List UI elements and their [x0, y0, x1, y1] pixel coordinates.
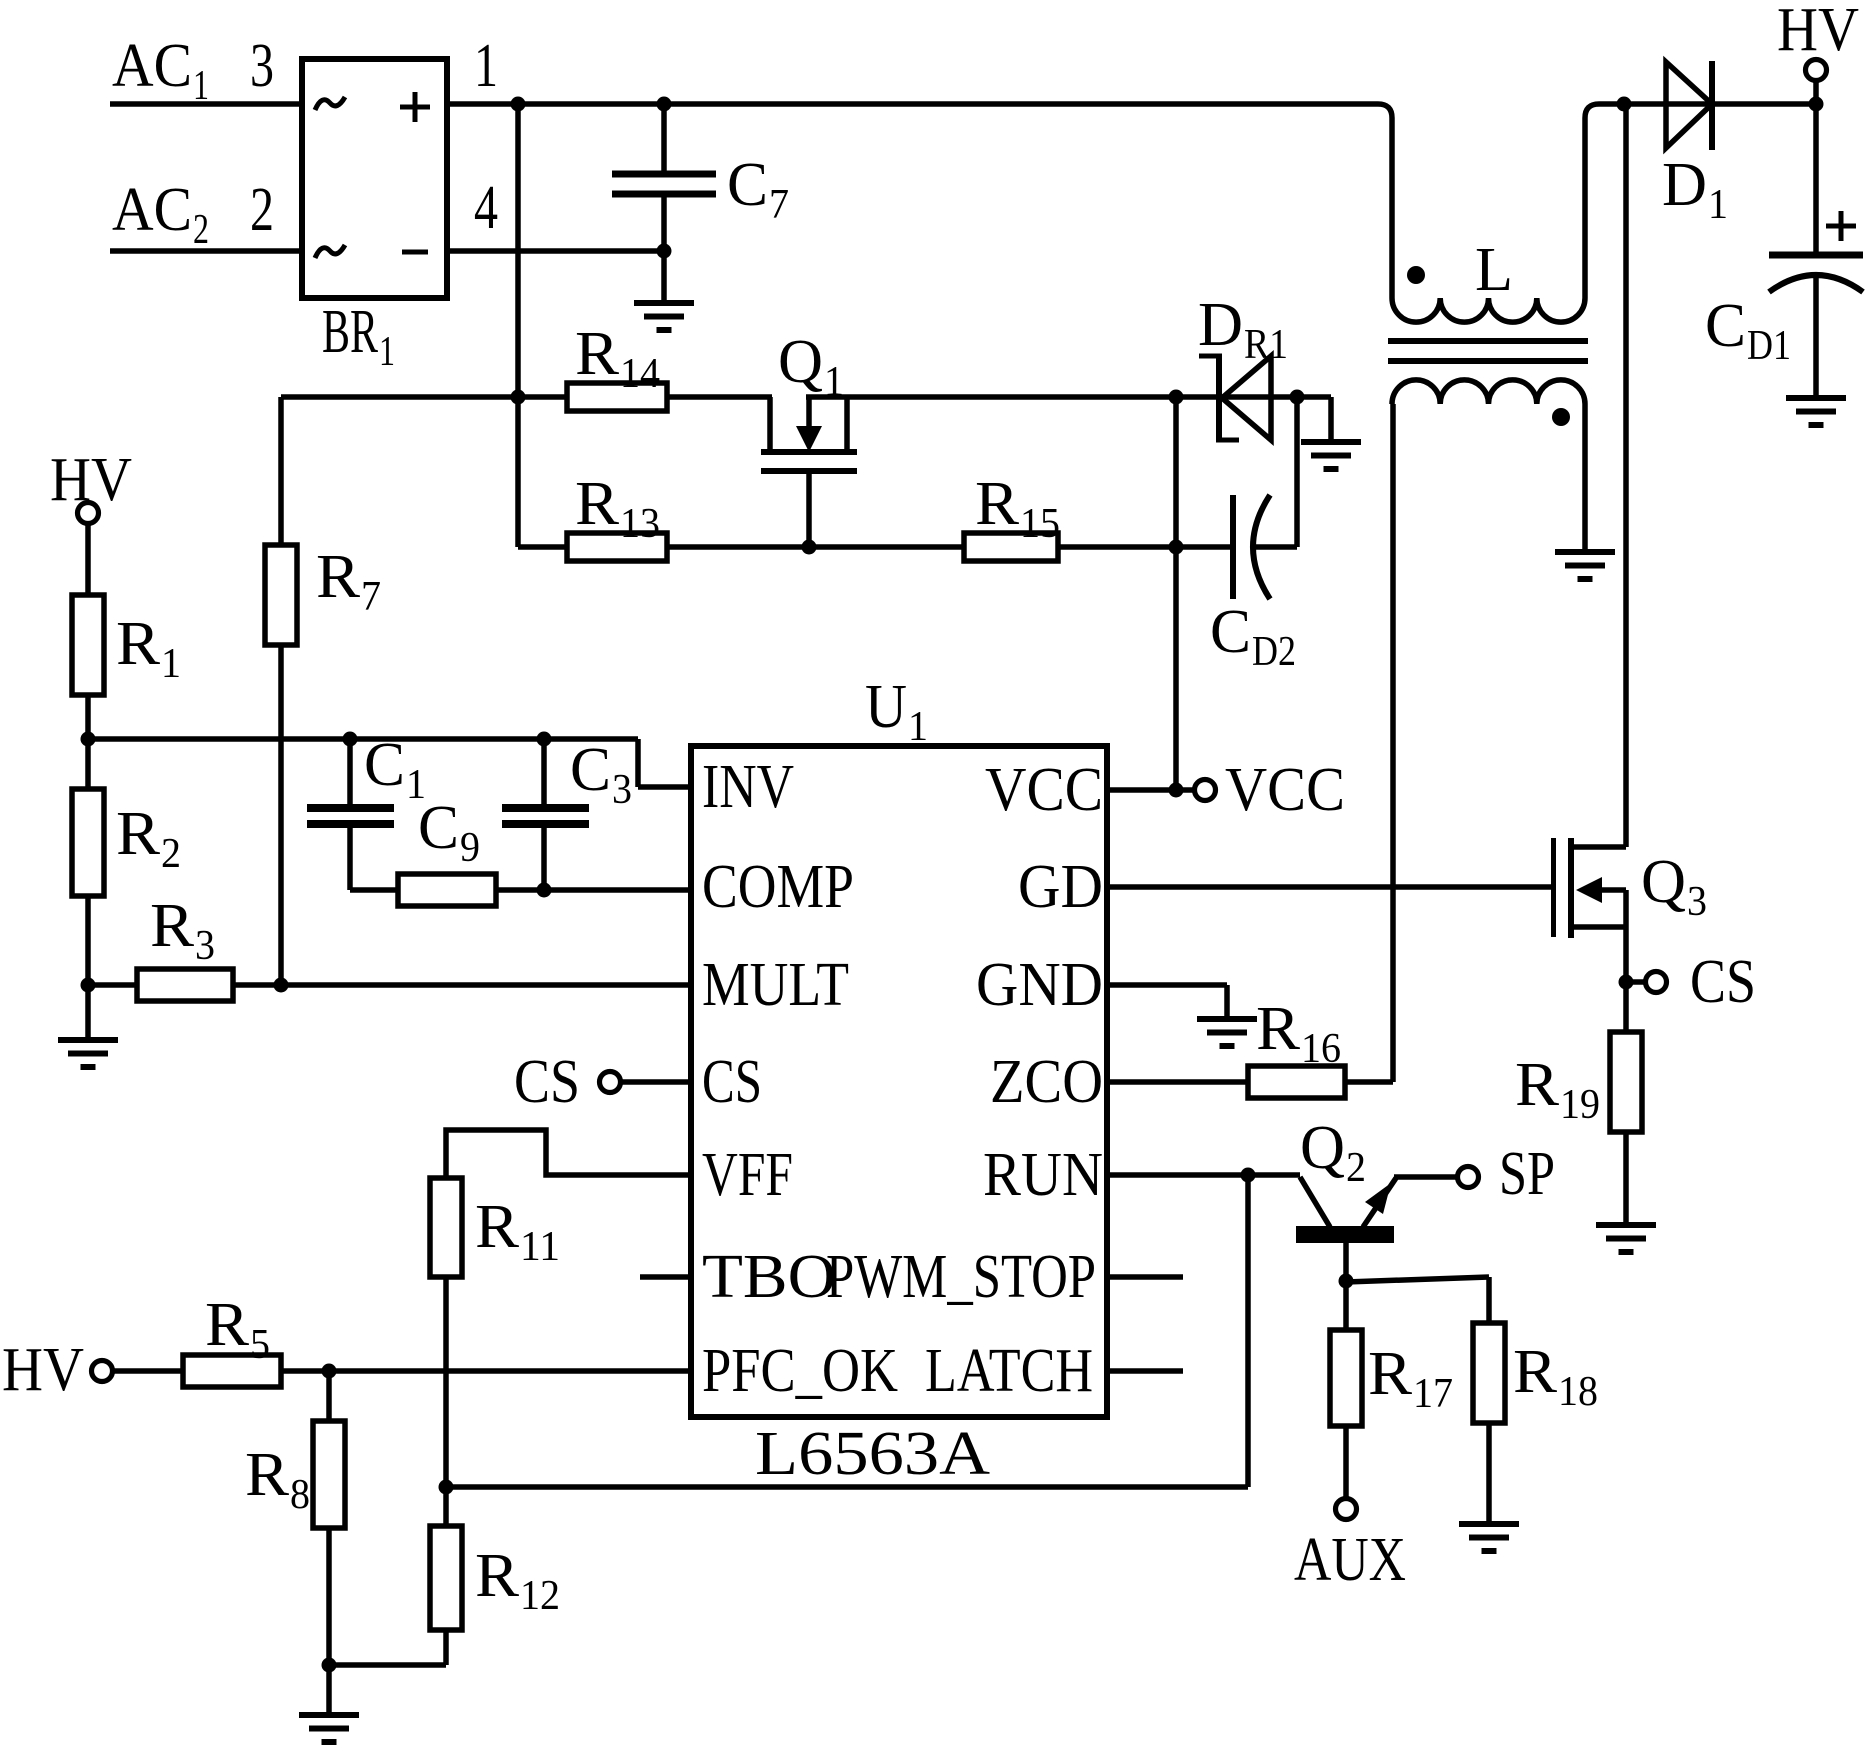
diode DR1 zener [1199, 356, 1271, 440]
svg-text:3: 3 [1687, 879, 1707, 925]
terminal CS right [1626, 972, 1667, 993]
plus sign CD1 [1826, 211, 1856, 241]
wire secondary right to ground [1582, 404, 1588, 552]
svg-text:C: C [418, 794, 459, 862]
junction INV/C3 [537, 732, 552, 747]
svg-text:R: R [1513, 1338, 1558, 1406]
resistor R3 [137, 969, 233, 1001]
net label HV left [50, 446, 132, 514]
svg-text:5: 5 [250, 1322, 270, 1368]
resistor R18 [1473, 1323, 1505, 1524]
resistor R8 [313, 1371, 345, 1715]
svg-text:C: C [570, 736, 611, 804]
svg-text:ZCO: ZCO [990, 1048, 1103, 1116]
wire Q1 to DR1 line [806, 394, 1297, 400]
wire ZCO pin [1107, 1079, 1248, 1085]
label CD1 [1705, 292, 1791, 369]
wire secondary to ZCO vertical [1390, 404, 1396, 1082]
svg-text:VCC: VCC [985, 756, 1103, 824]
pin label GD [1018, 853, 1103, 921]
svg-text:L: L [1475, 236, 1513, 304]
ground right of DR1 [1301, 442, 1361, 469]
svg-text:2: 2 [250, 176, 274, 244]
label R5 [205, 1291, 270, 1368]
capacitor C9 [398, 874, 496, 906]
svg-text:PWM_STOP: PWM_STOP [826, 1243, 1096, 1311]
wire MULT net [233, 982, 692, 988]
ground below R18 [1459, 1524, 1519, 1551]
wire AC2 input [110, 248, 301, 254]
junction L-D1-Q3drain [1617, 97, 1632, 112]
wire C7 to ground [661, 251, 667, 303]
resistor R13 [567, 533, 667, 561]
wire C1 to C9 [350, 887, 398, 893]
pin label TBO [702, 1243, 836, 1311]
pin label PWM_STOP [826, 1243, 1096, 1311]
label C1 [364, 731, 426, 808]
label R19 [1515, 1051, 1600, 1128]
junction C3/COMP [537, 883, 552, 898]
resistor R15 [964, 533, 1058, 561]
label D1 [1662, 151, 1728, 228]
svg-text:R: R [316, 543, 361, 611]
resistor R14 [567, 383, 667, 411]
svg-text:VFF: VFF [702, 1141, 793, 1209]
phase dot secondary [1552, 408, 1570, 426]
label Q2 [1300, 1114, 1366, 1191]
IC U1 L6563A box [691, 746, 1107, 1417]
wire R13 row left [518, 544, 567, 550]
svg-text:3: 3 [612, 767, 632, 813]
svg-text:GD: GD [1018, 853, 1103, 921]
svg-text:MULT: MULT [702, 951, 849, 1019]
pin number 2 [250, 176, 274, 244]
svg-text:R: R [975, 470, 1020, 538]
svg-text:8: 8 [290, 1472, 310, 1518]
svg-text:15: 15 [1020, 501, 1060, 547]
svg-text:R: R [116, 610, 161, 678]
svg-text:Q: Q [1300, 1114, 1345, 1182]
pin label COMP [702, 853, 854, 921]
pin label PFC_OK [702, 1337, 898, 1405]
net label VCC [1225, 756, 1345, 824]
svg-text:1: 1 [379, 329, 395, 375]
wire GD net [1107, 884, 1551, 890]
svg-text:LATCH: LATCH [925, 1337, 1093, 1405]
label C3 [570, 736, 632, 813]
svg-text:R: R [1515, 1051, 1560, 1119]
svg-text:U: U [865, 673, 907, 741]
capacitor CD2 [1233, 495, 1297, 599]
svg-text:GND: GND [976, 951, 1103, 1019]
svg-text:9: 9 [460, 825, 480, 871]
svg-text:R: R [475, 1193, 520, 1261]
svg-text:R: R [205, 1291, 250, 1359]
svg-text:C: C [364, 731, 405, 799]
wire AC1 input [110, 101, 301, 107]
svg-text:4: 4 [474, 174, 498, 242]
junction Q2 base node [1339, 1274, 1354, 1289]
svg-text:1: 1 [908, 704, 928, 750]
wire AC2 output to C7 [447, 248, 664, 254]
svg-text:D1: D1 [1747, 323, 1791, 369]
terminal HV output [1806, 60, 1827, 105]
wire to R3 [88, 982, 137, 988]
net label HV top right [1777, 0, 1859, 64]
wire Q3 source to CS [1623, 927, 1629, 1032]
net label AUX [1294, 1526, 1406, 1594]
svg-text:R: R [116, 800, 161, 868]
label R14 [575, 320, 660, 397]
junction CS node [1619, 975, 1634, 990]
pin label CS [702, 1048, 762, 1116]
svg-text:16: 16 [1301, 1026, 1341, 1072]
label R3 [150, 892, 215, 969]
label L [1475, 236, 1513, 304]
svg-text:BR: BR [322, 298, 378, 366]
wire DR1 vertical to VCC [1173, 547, 1179, 790]
wire base node to R18 [1346, 1277, 1489, 1323]
svg-text:1: 1 [1708, 182, 1728, 228]
core of L [1388, 341, 1588, 361]
svg-text:Q: Q [778, 328, 823, 396]
label R16 [1256, 995, 1341, 1072]
svg-text:C: C [727, 151, 768, 219]
capacitor C1 [307, 739, 394, 890]
terminal HV bottom left [92, 1361, 113, 1382]
label R12 [475, 1542, 560, 1619]
resistor R17 [1330, 1281, 1362, 1500]
label R18 [1513, 1338, 1598, 1415]
wire R11 to junction [443, 1277, 449, 1487]
svg-text:CS: CS [514, 1048, 580, 1116]
label R8 [245, 1441, 310, 1518]
terminal VCC [1195, 780, 1216, 801]
resistor R7 [265, 397, 297, 985]
wire DR1 to ground [1297, 397, 1331, 442]
pin number 3 [250, 32, 274, 100]
capacitor C3 [502, 739, 589, 890]
wire top rail from BR1 to inductor [447, 101, 1378, 107]
svg-text:7: 7 [769, 182, 789, 228]
svg-text:RUN: RUN [983, 1141, 1103, 1209]
svg-text:R: R [575, 470, 620, 538]
svg-text:D2: D2 [1252, 629, 1296, 675]
svg-text:INV: INV [702, 753, 794, 821]
svg-text:C: C [1210, 598, 1251, 666]
svg-text:2: 2 [161, 831, 181, 877]
terminal HV left [78, 503, 99, 596]
svg-text:AC: AC [112, 176, 192, 244]
svg-text:SP: SP [1499, 1140, 1555, 1208]
svg-text:AUX: AUX [1294, 1526, 1406, 1594]
wire GND pin [1107, 985, 1227, 1019]
junction top rail / C7 [657, 97, 672, 112]
ground below C7 [634, 303, 694, 330]
net label AC1 [112, 32, 209, 109]
svg-text:2: 2 [1346, 1145, 1366, 1191]
label DR1 [1198, 291, 1288, 368]
svg-text:R: R [1368, 1340, 1413, 1408]
svg-text:R: R [575, 320, 620, 388]
label R1 [116, 610, 181, 687]
svg-text:D: D [1662, 151, 1707, 219]
net label CS right [1690, 948, 1756, 1016]
pin label LATCH [925, 1337, 1093, 1405]
svg-text:3: 3 [250, 32, 274, 100]
terminal CS at U1 [600, 1072, 693, 1093]
wire rail into primary [1378, 104, 1392, 298]
net label AC2 [112, 176, 209, 253]
junction DR1 cathode-side [1290, 390, 1305, 405]
svg-text:R: R [475, 1542, 520, 1610]
junction DR1 anode line [1169, 390, 1184, 405]
wire R13 to R15 [667, 544, 964, 550]
svg-text:CS: CS [702, 1048, 762, 1116]
resistor R19 [1610, 1032, 1642, 1132]
junction top rail / left dropper [511, 97, 526, 112]
pin label INV [702, 753, 794, 821]
svg-text:R: R [1256, 995, 1301, 1063]
ground below R8 [299, 1715, 359, 1742]
label R13 [575, 470, 660, 547]
pin label VFF [702, 1141, 793, 1209]
ground below R19 [1596, 1225, 1656, 1252]
net label CS left [514, 1048, 580, 1116]
wire CD2 to DR1 right vertical [1294, 397, 1300, 547]
junction R3/R7 [274, 978, 289, 993]
junction R2/R3/ground [81, 978, 96, 993]
transistor Q2 [1296, 1177, 1396, 1281]
pin label RUN [983, 1141, 1103, 1209]
label Q1 [778, 328, 844, 405]
wire left dropper vertical [515, 104, 521, 547]
wire DR1 vertical [1173, 397, 1179, 547]
label R7 [316, 543, 381, 620]
terminal AUX [1336, 1499, 1357, 1520]
phase dot primary [1407, 266, 1425, 284]
pin label GND [976, 951, 1103, 1019]
ground below secondary [1555, 552, 1615, 579]
junction RUN [1241, 1168, 1256, 1183]
label R11 [475, 1193, 560, 1270]
svg-text:COMP: COMP [702, 853, 854, 921]
svg-text:D: D [1198, 291, 1243, 359]
inductor L primary winding [1392, 298, 1585, 322]
net label SP [1499, 1140, 1555, 1208]
wire D1 row [1624, 101, 1816, 107]
label BR1 [322, 298, 395, 375]
diode D1 [1666, 61, 1712, 150]
label L6563A [755, 1420, 990, 1488]
svg-text:19: 19 [1560, 1082, 1600, 1128]
pin label VCC [985, 756, 1103, 824]
resistor R5 [183, 1355, 281, 1387]
label Q3 [1641, 848, 1707, 925]
wire R16 to secondary [1345, 1079, 1393, 1085]
transistor Q1 [761, 397, 857, 547]
capacitor C7 [612, 104, 716, 251]
wire bottom run [446, 1175, 1248, 1487]
pin number 4 [474, 174, 498, 242]
junction VCC [1169, 783, 1184, 798]
wire R2 to R3 junction [85, 739, 91, 985]
capacitor CD1 polarized [1769, 255, 1863, 398]
label U1 [865, 673, 928, 750]
wire R14 to Q1 [667, 394, 772, 400]
junction C7 bottom [657, 244, 672, 259]
junction R12/R8 [322, 1658, 337, 1673]
net label HV bottom left [2, 1336, 84, 1404]
terminal SP [1458, 1167, 1479, 1188]
resistor R12 [430, 1526, 462, 1630]
svg-text:C: C [1705, 292, 1746, 360]
svg-text:VCC: VCC [1225, 756, 1345, 824]
svg-text:3: 3 [195, 923, 215, 969]
junction Q1 gate / R13 line [802, 540, 817, 555]
wire primary to D1 node [1585, 104, 1624, 298]
svg-text:HV: HV [50, 446, 132, 514]
pin number 1 [474, 32, 498, 100]
label R17 [1368, 1340, 1453, 1417]
svg-text:AC: AC [112, 32, 192, 100]
label R15 [975, 470, 1060, 547]
resistor R11 [430, 1178, 462, 1277]
ground at GND pin [1197, 1019, 1257, 1046]
svg-text:17: 17 [1413, 1371, 1453, 1417]
wire VFF staircase [446, 1130, 692, 1178]
junction INV/C1 [343, 732, 358, 747]
wire R12 to R8 junction [329, 1630, 446, 1665]
wire Q2 emitter to SP [1394, 1174, 1459, 1180]
svg-text:PFC_OK: PFC_OK [702, 1337, 898, 1405]
wire R12 top lead [443, 1487, 449, 1526]
resistor R1 [72, 595, 104, 695]
junction R1/R2/INV [81, 732, 96, 747]
ground below CD1 [1786, 398, 1846, 425]
wire R14 line left segment [281, 394, 567, 400]
wire VCC pin [1107, 787, 1196, 793]
wire R2 bottom to ground [85, 985, 91, 1040]
svg-text:2: 2 [193, 207, 209, 253]
label C9 [418, 794, 480, 871]
wire PFC_OK net [281, 1368, 692, 1374]
junction HV output [1809, 97, 1824, 112]
svg-text:L6563A: L6563A [755, 1420, 990, 1488]
svg-text:Q: Q [1641, 848, 1686, 916]
svg-text:CS: CS [1690, 948, 1756, 1016]
bridge rectifier BR1 [302, 59, 447, 298]
svg-text:TBO: TBO [702, 1243, 836, 1311]
svg-text:R: R [245, 1441, 290, 1509]
svg-text:12: 12 [520, 1573, 560, 1619]
svg-text:HV: HV [2, 1336, 84, 1404]
junction dropper / R14 line [511, 390, 526, 405]
wire Q3 drain [1623, 104, 1629, 847]
svg-text:18: 18 [1558, 1369, 1598, 1415]
ground below R2 [58, 1040, 118, 1067]
svg-text:R1: R1 [1244, 322, 1288, 368]
svg-text:7: 7 [361, 574, 381, 620]
wire R1 to junction [85, 695, 91, 739]
svg-text:11: 11 [520, 1224, 560, 1270]
pin label ZCO [990, 1048, 1103, 1116]
label CD2 [1210, 598, 1296, 675]
label C7 [727, 151, 789, 228]
svg-text:1: 1 [474, 32, 498, 100]
junction R11/R12/bottom wire [439, 1480, 454, 1495]
junction R15 / DR1 vertical [1169, 540, 1184, 555]
resistor R2 [72, 789, 104, 896]
transistor Q3 [1551, 838, 1626, 938]
stub LATCH [1107, 1368, 1183, 1374]
junction R5/R8 [322, 1364, 337, 1379]
svg-text:14: 14 [620, 351, 660, 397]
svg-text:R: R [150, 892, 195, 960]
wire RUN net [1107, 1172, 1300, 1178]
pin label MULT [702, 951, 849, 1019]
wire R15 to CD2 [1058, 544, 1233, 550]
resistor R16 [1248, 1066, 1345, 1098]
svg-text:1: 1 [161, 641, 181, 687]
wire COMP net [496, 887, 692, 893]
label R2 [116, 800, 181, 877]
wire R19 to ground [1623, 1132, 1629, 1225]
wire HV to R5 [111, 1368, 183, 1374]
svg-text:HV: HV [1777, 0, 1859, 64]
wire INV net [88, 739, 692, 787]
svg-text:13: 13 [620, 501, 660, 547]
stub TBO [640, 1274, 692, 1280]
stub PWM_STOP [1107, 1274, 1183, 1280]
wire HV to CD1 [1813, 104, 1819, 255]
inductor L secondary winding [1392, 380, 1585, 404]
